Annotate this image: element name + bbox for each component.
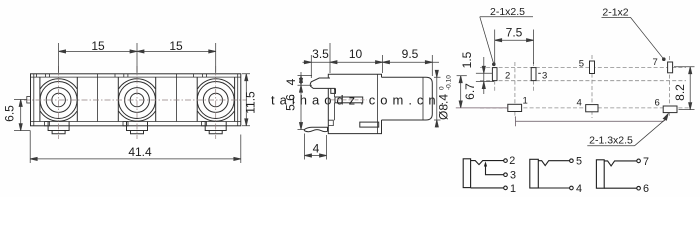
barrel inner end line <box>422 77 424 120</box>
jack 3 outer ring <box>197 82 234 119</box>
dim 8.2 line <box>689 67 691 110</box>
arrows 3.5 outside <box>304 61 311 64</box>
jack 1 hole <box>52 93 66 107</box>
dashed centerline top row (pads 5,7) <box>480 66 686 68</box>
svg-text:6.5: 6.5 <box>3 105 17 122</box>
terminal circle 1 <box>504 186 508 190</box>
jack 2 bottom block <box>127 122 148 131</box>
jack 2 outer ring <box>119 82 156 119</box>
left wall notch <box>328 120 333 125</box>
dim 6.5 extension lines <box>14 100 31 131</box>
jack 1 large clipped arcs <box>40 79 77 121</box>
wire sleeve pin 6 <box>604 187 637 189</box>
horizontal centerline front view <box>24 99 247 101</box>
svg-text:-0.10: -0.10 <box>446 75 453 90</box>
middle pin centerline <box>331 99 368 101</box>
dashed vertical pad1 <box>514 62 516 118</box>
svg-text:4: 4 <box>577 98 582 109</box>
switch arrow pin 3 <box>486 164 504 175</box>
svg-text:6: 6 <box>643 183 649 195</box>
housing inner left wall lower part <box>334 103 336 120</box>
svg-text:2-1x2: 2-1x2 <box>602 7 628 19</box>
dim 41.4 line <box>30 158 241 160</box>
jack 1 barrel sides <box>40 77 77 121</box>
dim 7.5 extension lines <box>495 30 534 65</box>
svg-text:7: 7 <box>653 57 658 68</box>
dim 11.5 extension lines <box>242 74 250 126</box>
svg-text:5: 5 <box>576 156 582 168</box>
dashed vertical pad3 <box>533 62 535 92</box>
terminal circle 2 <box>504 159 508 163</box>
svg-text:3: 3 <box>510 170 516 182</box>
svg-text:4: 4 <box>313 142 320 156</box>
strip notch ticks jack3 <box>194 74 207 77</box>
jack 3 hole <box>209 93 223 107</box>
vertical centerline jack 2 <box>136 66 138 139</box>
housing inner left wall <box>334 89 336 97</box>
wire tip contact with switch notch (pin 5) <box>538 161 569 166</box>
left dim line 4/5.6 <box>300 72 302 130</box>
housing outline (side view) <box>328 74 381 133</box>
jack 1 middle ring <box>46 88 71 113</box>
dim 1.5 extension lines <box>476 73 494 81</box>
jack 2 barrel sides <box>118 77 155 121</box>
pad 4 <box>586 105 598 112</box>
vertical centerline jack 1 <box>58 66 60 139</box>
bottom notch jack3 <box>202 122 207 126</box>
terminal circle 6 <box>637 186 641 190</box>
strip notch ticks jack2 <box>115 74 128 77</box>
arrows 9.5 <box>383 61 390 64</box>
wire sleeve pin 4 <box>538 187 569 189</box>
leader 2-1.3x2.5 to pad 6 <box>635 119 667 146</box>
jack 2 middle ring <box>125 88 150 113</box>
pad 6 <box>663 106 677 113</box>
svg-text:5.6: 5.6 <box>284 94 298 111</box>
dim 41.4 extension lines <box>30 131 241 163</box>
svg-text:2: 2 <box>505 71 510 82</box>
label 2-1.3x2.5 underline <box>587 145 634 147</box>
dim 6.7 top extension <box>457 75 467 77</box>
pad 7 <box>668 62 673 73</box>
jack symbol 2 sleeve <box>530 159 539 188</box>
svg-text:4: 4 <box>284 78 298 85</box>
phi8.4 dim line <box>436 70 438 128</box>
label 2-1x2 underline <box>602 16 631 18</box>
wire sleeve pin 1 <box>471 187 504 189</box>
leader to pad 7 <box>631 17 664 58</box>
pad 2 <box>492 68 497 81</box>
body top strip line <box>31 76 241 78</box>
terminal circle 4 <box>570 186 574 190</box>
arrows 10 <box>376 61 383 64</box>
svg-text:1: 1 <box>510 183 516 195</box>
barrel (side view) <box>382 77 433 120</box>
bottom notch jack2 <box>123 122 128 126</box>
pad 5 <box>590 61 595 74</box>
svg-text:10: 10 <box>349 47 363 61</box>
leader dot pad 7 <box>662 57 666 61</box>
dashed vertical pads 7,6 <box>669 56 671 118</box>
slot leader arrow to pad 6 <box>663 114 668 121</box>
jack 2 large clipped arcs <box>119 79 156 121</box>
svg-text:7.5: 7.5 <box>506 26 523 40</box>
jack 1 bottom block <box>48 122 69 131</box>
svg-text:9.5: 9.5 <box>402 47 419 61</box>
svg-text:15: 15 <box>91 39 105 53</box>
dim 7.5 line <box>495 39 534 41</box>
svg-text:2: 2 <box>509 155 515 167</box>
jack 3 large clipped arcs <box>198 79 235 121</box>
body bottom inner line <box>31 121 241 123</box>
terminal circle 5 <box>570 159 574 163</box>
lower contact bar <box>360 122 379 127</box>
jack 3 middle ring <box>203 88 228 113</box>
svg-text:1: 1 <box>523 96 528 107</box>
dim 1.5/white line <box>483 57 485 94</box>
dim 15 line <box>59 50 216 52</box>
svg-text:5: 5 <box>579 59 584 70</box>
dim 6.7 line <box>460 76 462 108</box>
leader to pad 2 <box>480 17 494 64</box>
dim 15 arrows <box>59 50 66 53</box>
svg-text:1.5: 1.5 <box>460 51 474 68</box>
svg-text:2-1.3x2.5: 2-1.3x2.5 <box>589 134 633 146</box>
leader dot pad 2 <box>492 63 496 67</box>
jack 1 outer ring <box>40 82 77 119</box>
dim 6.5 line <box>20 100 22 131</box>
pad 3 <box>531 68 536 81</box>
svg-text:4: 4 <box>576 183 582 195</box>
svg-text:taihaodz.com.cn.: taihaodz.com.cn. <box>271 93 449 108</box>
bottom crimp pin <box>304 127 327 131</box>
jack 3 bottom block <box>205 122 226 131</box>
body inner right wall <box>237 74 239 126</box>
slot leader line from pad1 <box>516 116 667 126</box>
svg-text:6: 6 <box>655 98 660 109</box>
extension line bottom row <box>456 107 508 109</box>
dashed vertical pad2 <box>494 62 496 92</box>
jack 1 bottom tab <box>52 131 65 134</box>
svg-text:6.7: 6.7 <box>463 83 477 100</box>
body inner left wall <box>33 74 35 126</box>
dim 11.5 line <box>245 74 247 126</box>
phi8.4 dim extension lines <box>434 77 441 120</box>
pad 1 <box>508 104 522 111</box>
jack symbol 1 sleeve <box>463 159 470 188</box>
left dim extension lines <box>298 76 313 130</box>
housing inner right wall <box>377 74 379 133</box>
svg-text:7: 7 <box>643 156 649 168</box>
dim 15 extension lines <box>59 43 216 73</box>
bottom notch jack1 <box>45 122 50 126</box>
top dim line 3.5/10/9.5 <box>303 61 440 63</box>
svg-text:8.2: 8.2 <box>673 84 687 101</box>
top switch pin foot <box>331 88 336 93</box>
jack 3 bottom tab <box>209 131 222 134</box>
jack 2 hole <box>130 93 144 107</box>
terminal circle 7 <box>637 159 641 163</box>
middle contact pin <box>335 97 363 103</box>
svg-text:15: 15 <box>169 39 183 53</box>
bottom dim extension lines <box>305 134 327 160</box>
svg-text:3: 3 <box>542 71 547 82</box>
svg-text:Ø8.4: Ø8.4 <box>437 94 451 120</box>
terminal circle 3 <box>504 173 508 177</box>
svg-text:3.5: 3.5 <box>312 47 329 61</box>
label 2-1x2.5 underline <box>480 16 533 18</box>
svg-text:0: 0 <box>439 86 446 90</box>
svg-text:2-1x2.5: 2-1x2.5 <box>490 6 525 18</box>
vertical centerline jack 3 <box>215 66 217 139</box>
bottom dim line 4 <box>305 155 327 157</box>
compartment divider 2 <box>176 74 178 122</box>
jack 3 barrel sides <box>197 77 234 121</box>
compartment divider 1 <box>97 74 99 122</box>
dashed centerline second row (pads 2,3 bottom) <box>480 80 686 82</box>
dashed centerline bottom row (pads 1,4,6) <box>480 107 690 109</box>
label 3 leader dot <box>538 73 541 74</box>
left mounting tab <box>27 97 31 104</box>
wire tip contact with switch notch (pin 2) <box>471 161 504 165</box>
dashed vertical pads 5,4 <box>591 55 593 118</box>
top dim extension lines <box>311 43 432 78</box>
svg-text:41.4: 41.4 <box>128 145 152 159</box>
housing top-left step <box>328 74 335 78</box>
top switch pin (side view) <box>310 78 335 90</box>
jack symbol 3 sleeve <box>596 160 604 188</box>
svg-text:11.5: 11.5 <box>244 91 258 114</box>
connector body outline (front view) <box>31 74 241 126</box>
strip notch ticks jack1 <box>37 74 50 77</box>
wire tip contact with switch notch (pin 7) <box>604 161 637 166</box>
dim 8.2 extension lines <box>674 67 695 110</box>
jack 2 bottom tab <box>131 131 144 134</box>
